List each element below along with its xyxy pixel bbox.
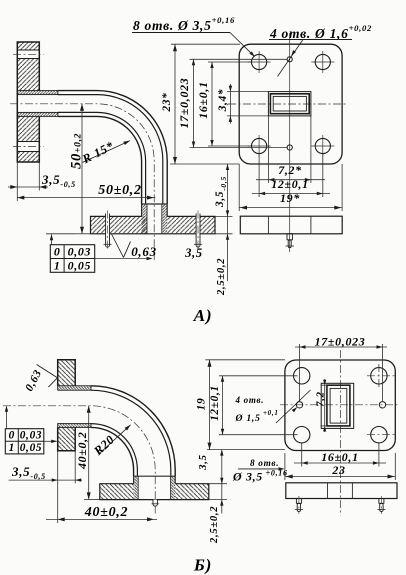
dimension 17±0.023	[190, 58, 288, 60]
frame Б leader to flange face	[44, 440, 57, 442]
pin below plate Б-left	[153, 500, 157, 507]
dimension 12±0.1	[258, 154, 260, 197]
dimension 17±0.023 Б	[299, 344, 301, 401]
svg-text:0,05: 0,05	[20, 442, 43, 454]
tolerance frame A	[50, 245, 94, 273]
flange Б horizontal centerline	[280, 404, 399, 406]
svg-text:2,5±0,2: 2,5±0,2	[216, 258, 227, 296]
tube inner top wall and arc	[58, 95, 163, 204]
locating holes 1.6	[287, 57, 292, 62]
dimension 40±0.2 vertical Б	[88, 406, 90, 500]
svg-text:23: 23	[331, 463, 345, 477]
dimension 12±0.1 Б	[219, 375, 298, 377]
bend tube Б walls	[91, 386, 175, 476]
svg-text:17±0,023: 17±0,023	[315, 335, 366, 349]
svg-text:3,5: 3,5	[197, 454, 209, 471]
flange A outline	[17, 42, 39, 162]
waveguide aperture Б	[321, 383, 354, 428]
dimension 7.2* aperture width	[267, 116, 269, 183]
svg-text:Б): Б)	[193, 556, 212, 575]
svg-text:12±0,1: 12±0,1	[271, 177, 308, 191]
flange Б outline	[58, 360, 75, 451]
pin below plate A face	[287, 234, 292, 240]
roughness 0.63 on flange Б face	[37, 365, 58, 378]
flange A hatched zones	[17, 42, 39, 50]
flange A bolt hole centerlines	[13, 53, 44, 55]
svg-text:3,5: 3,5	[184, 246, 203, 260]
tube axis centerline with bend	[10, 104, 154, 260]
dimension 23* vertical	[171, 43, 240, 45]
right-side dims of plate A: 3,5-0,5 and 2,5±0,2	[170, 163, 239, 165]
svg-text:8 отв.: 8 отв.	[250, 458, 279, 468]
dimension 7.2 aperture Б	[321, 384, 328, 386]
flange A side plate below face view	[240, 216, 342, 234]
svg-text:А): А)	[193, 306, 213, 325]
flange Б side plate below face view	[286, 483, 397, 499]
dimension 19*	[238, 164, 240, 211]
right-side dims of plate Б: 3,5 and 2,5±0,2	[207, 449, 285, 451]
svg-text:40±0,2: 40±0,2	[84, 505, 128, 520]
svg-text:19: 19	[196, 398, 208, 411]
svg-text:4 отв.: 4 отв.	[235, 395, 265, 405]
tube boss lower wall section (hatched strip)	[17, 112, 58, 116]
dimension 3.5-0.5 flange Б thickness	[9, 479, 82, 481]
bolt holes 3.5 with crosshairs	[252, 54, 267, 69]
dimension 19 Б	[205, 359, 285, 361]
svg-text:3,4*: 3,4*	[217, 89, 229, 113]
pins below plate Б	[296, 499, 301, 504]
svg-text:0,03: 0,03	[20, 430, 43, 442]
svg-text:0,05: 0,05	[68, 258, 92, 272]
svg-text:7,2*: 7,2*	[278, 163, 302, 177]
svg-text:17±0,023: 17±0,023	[177, 78, 191, 129]
collar at tube base Б	[134, 475, 176, 477]
svg-text:40±0,2: 40±0,2	[75, 432, 89, 470]
tube boss lower strip Б	[58, 424, 91, 428]
flange Б hatched zones	[58, 360, 75, 386]
locating holes 1.5	[296, 402, 302, 408]
svg-text:16±0,1: 16±0,1	[196, 81, 210, 118]
dimension 3.4* aperture height	[227, 91, 268, 93]
radius leader R 15*	[83, 141, 130, 163]
tube outer bottom wall and arc	[58, 116, 142, 204]
svg-text:1: 1	[9, 442, 15, 454]
dimension 50±0.2 horizontal	[17, 197, 155, 199]
base plate A (section)	[91, 216, 148, 233]
svg-text:16±0,1: 16±0,1	[321, 450, 358, 464]
bolt holes Б	[294, 368, 310, 384]
tube axis centerline Б	[3, 406, 155, 514]
dimension 50+0.2 vertical	[81, 104, 83, 234]
frame leader to plate datum	[51, 235, 53, 245]
pin right	[196, 214, 200, 248]
svg-text:23*: 23*	[161, 92, 173, 112]
waveguide aperture A	[268, 92, 311, 116]
dimension 40±0.2 horizontal Б	[46, 518, 157, 520]
svg-text:7,2: 7,2	[315, 391, 327, 407]
svg-text:1: 1	[54, 258, 61, 272]
roughness 0.63 on plate	[112, 234, 124, 258]
svg-text:0,63: 0,63	[131, 244, 157, 259]
tolerance frame Б	[5, 429, 44, 454]
svg-text:0,03: 0,03	[68, 245, 92, 259]
frame Б leader to axis datum	[6, 407, 8, 429]
pin left	[106, 214, 110, 248]
flange A face vertical centerline	[289, 33, 291, 252]
svg-text:12±0,1: 12±0,1	[209, 385, 221, 421]
tube boss upper strip Б	[58, 386, 91, 390]
svg-text:50±0,2: 50±0,2	[98, 183, 141, 198]
flange Б face view outline	[285, 360, 395, 451]
svg-text:2,5±0,2: 2,5±0,2	[209, 506, 220, 544]
svg-text:0: 0	[9, 430, 15, 442]
svg-text:0: 0	[54, 245, 61, 259]
dimension 16±0.1 Б	[301, 444, 303, 467]
tube boss upper wall section (hatched strip)	[17, 91, 58, 95]
svg-text:19*: 19*	[280, 191, 300, 205]
collar at tube base (section)	[142, 203, 168, 205]
crosshair dashes on right holes	[367, 375, 395, 377]
flange A face view outline	[239, 44, 342, 164]
radius leader R20	[100, 425, 131, 453]
frame leader to bore axis	[95, 258, 152, 260]
dimension 3.5-0.5 flange thickness	[8, 186, 48, 188]
tube outer top wall and outer bend arc	[58, 91, 167, 204]
flange Б vertical centerline	[340, 350, 342, 515]
tube inner bottom wall and arc	[58, 112, 146, 204]
flange A face horizontal centerline	[228, 103, 347, 105]
base plate Б (section)	[100, 484, 134, 500]
dimension 16±0.1	[208, 61, 252, 63]
dimension 23 Б	[284, 453, 286, 480]
